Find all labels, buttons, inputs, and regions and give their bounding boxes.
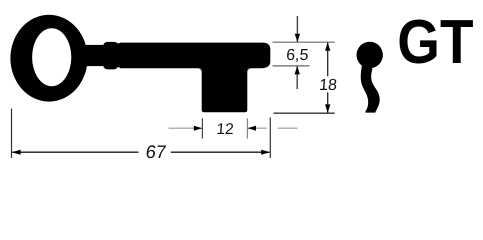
dim 18 bottom extension line [274,112,335,114]
dim 6,5 lower leader line [296,66,298,89]
dim 6,5 upper leader line [296,16,298,42]
bead notch bottom [117,67,121,71]
dim 12 arrow right [247,126,256,131]
dim 6,5 top extension line [273,41,335,43]
svg-text:6,5: 6,5 [286,47,310,64]
key bow (outer oval ring) [10,15,87,102]
svg-text:GT: GT [397,8,473,77]
svg-text:67: 67 [145,141,168,162]
dim 12 line left segment [169,127,203,129]
svg-text:18: 18 [319,77,338,94]
dim 6,5 bottom extension line [273,65,310,67]
bead notch top [117,40,121,44]
key collar bead [103,42,118,70]
key bit [202,60,248,112]
dim 67 arrow left [12,150,21,155]
dim 67 extension line right [269,118,271,159]
key shaft with rounded tip [116,43,270,69]
keyhole profile circle [357,42,383,68]
dim 18 arrow down [325,104,330,112]
dim 12 arrow left [194,126,203,131]
dim 12 extension line left [201,118,203,138]
dim 67 line right segment [171,151,270,153]
dim 12 line right segment b [278,127,298,129]
dim 18 vertical line upper segment [327,43,329,77]
dim 67 line left segment [12,151,138,153]
dim 67 extension line left [11,109,13,159]
dim 12 extension line right [246,118,248,138]
dim 12 line right segment a [248,127,267,129]
dim 6,5 arrow up [295,66,300,74]
bit-shaft left fillet [197,68,202,73]
keyhole profile wavy stem [361,66,380,113]
dim 18 vertical line lower segment [327,92,329,112]
bow hole [32,28,71,86]
svg-text:12: 12 [216,121,234,138]
dim 18 arrow up [325,42,330,50]
bit-shaft right fillet [247,68,252,73]
dim 67 arrow right [261,150,270,155]
key neck [80,45,107,66]
dim 6,5 arrow down [295,34,300,42]
